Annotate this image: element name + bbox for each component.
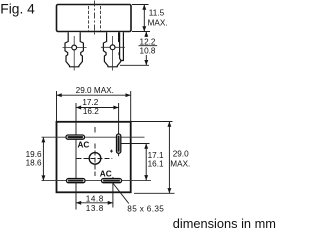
svg-text:11.5: 11.5 — [149, 9, 165, 18]
svg-text:16.2: 16.2 — [83, 107, 99, 116]
svg-text:Fig. 4: Fig. 4 — [0, 2, 35, 17]
svg-text:AC: AC — [100, 169, 112, 178]
svg-text:MAX.: MAX. — [170, 159, 190, 168]
svg-text:85 x 6.35: 85 x 6.35 — [127, 205, 164, 214]
svg-text:29.0: 29.0 — [173, 150, 189, 159]
svg-text:17.2: 17.2 — [82, 98, 98, 107]
svg-text:16.1: 16.1 — [148, 159, 164, 168]
svg-text:13.8: 13.8 — [86, 204, 104, 213]
svg-text:29.0 MAX.: 29.0 MAX. — [76, 86, 114, 95]
svg-text:14.8: 14.8 — [86, 194, 104, 203]
svg-text:10.8: 10.8 — [140, 46, 156, 55]
svg-text:12.2: 12.2 — [140, 37, 156, 46]
svg-text:18.6: 18.6 — [26, 159, 42, 168]
svg-text:AC: AC — [78, 141, 90, 150]
svg-text:dimensions in mm: dimensions in mm — [173, 216, 276, 231]
svg-text:MAX.: MAX. — [148, 18, 168, 27]
